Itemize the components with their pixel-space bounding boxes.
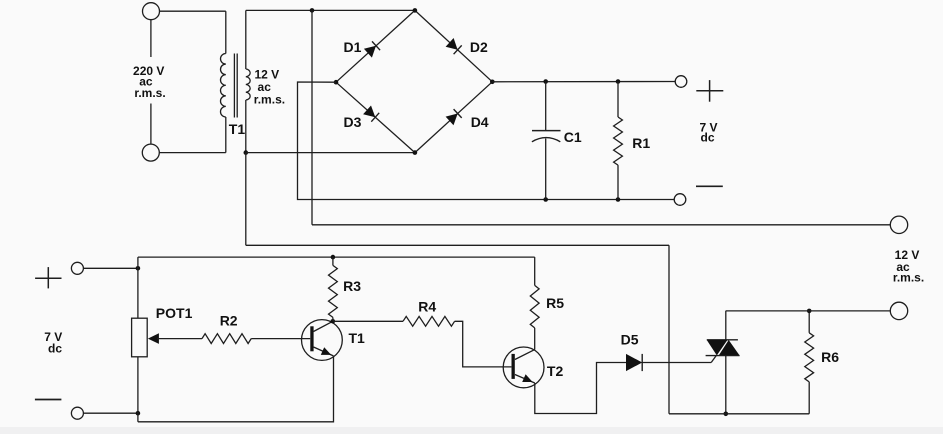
svg-text:T1: T1 [349, 330, 366, 346]
capacitor C1 curved plate [532, 138, 560, 142]
wire bridge edge D2 [415, 10, 492, 81]
svg-text:T1: T1 [229, 121, 246, 137]
svg-text:r.m.s.: r.m.s. [893, 271, 924, 285]
transistor T2 body [503, 347, 544, 388]
node bridge bottom [413, 150, 418, 155]
svg-text:D1: D1 [344, 39, 362, 55]
wire feed down [245, 153, 247, 246]
wire primary top [160, 10, 226, 12]
wire C1 top [545, 82, 547, 131]
svg-text:R1: R1 [632, 135, 650, 151]
transistor T2 collector [515, 350, 535, 360]
symbol plus output [696, 90, 723, 92]
wire primary bottom [159, 152, 226, 154]
triac TRI1 bottom bar [706, 355, 740, 357]
wire R5 bottom [534, 328, 536, 350]
capacitor C1 plate [532, 130, 561, 132]
symbol plus input [35, 277, 61, 279]
svg-text:dc: dc [700, 131, 714, 145]
node R1 bottom [616, 197, 621, 202]
transistor T1 body [302, 320, 343, 361]
wire bridge edge D3 [336, 82, 415, 152]
node R6 top [807, 309, 812, 314]
wire plus rail [492, 81, 675, 83]
wire bridge edge D1 [336, 10, 415, 82]
node R1 top [616, 79, 621, 84]
wire R1 bottom [617, 165, 619, 199]
wire minus leg [298, 82, 675, 200]
node triac bottom [724, 412, 729, 417]
wire R4 left [333, 320, 403, 322]
wire primary left upper [225, 11, 227, 53]
terminal 12V ac lower [890, 302, 907, 319]
terminal 220V top [143, 3, 160, 20]
transistor T1 emitter [314, 347, 334, 356]
wire R6 top [808, 311, 810, 333]
diode D3 [363, 106, 375, 118]
resistor R3 [329, 265, 338, 317]
wire triac MT1 [725, 356, 727, 414]
wire C1 bottom [545, 139, 547, 200]
wire feed across [246, 244, 669, 246]
wire triac MT2 [725, 311, 727, 340]
node bridge right [490, 80, 495, 85]
wire triac top rail [726, 310, 891, 312]
terminal 12V ac upper [890, 216, 907, 233]
transistor T1 collector [314, 321, 333, 331]
svg-text:D5: D5 [621, 332, 639, 348]
wire R3 top [332, 257, 334, 265]
node C1 top [543, 79, 548, 84]
symbol minus input [35, 399, 62, 401]
wire POT1 bottom [137, 357, 139, 422]
transformer T1 secondary coil [246, 69, 250, 100]
terminal 220V bottom [142, 144, 159, 161]
svg-text:R3: R3 [343, 278, 361, 294]
wire secondary bottom vert [245, 100, 247, 153]
wire minus input [83, 412, 137, 414]
node plus input [136, 266, 141, 271]
svg-text:C1: C1 [564, 129, 582, 145]
svg-text:R2: R2 [220, 313, 238, 329]
resistor R4 [403, 316, 455, 326]
terminal plus input [71, 262, 83, 274]
wire bridge edge D4 [415, 82, 492, 153]
wire secondary top vert [245, 10, 247, 69]
wire secondary bottom horiz [246, 152, 415, 154]
node bridge left [334, 80, 339, 85]
terminal plus 7V [675, 76, 687, 88]
node minus input [136, 411, 141, 416]
potentiometer POT1 body [132, 318, 148, 357]
wire R2 [157, 338, 202, 340]
terminal minus 7V [674, 194, 686, 206]
potentiometer POT1 wiper [148, 333, 159, 344]
wire D5 to gate [642, 362, 711, 364]
node secondary bottom [244, 150, 249, 155]
node R3 top [331, 255, 336, 260]
wire R4 right [455, 321, 512, 367]
node T1 collector [331, 319, 336, 324]
wire left vert upper [137, 257, 139, 318]
svg-text:D4: D4 [471, 114, 489, 130]
triac TRI1 top bar [707, 339, 738, 341]
node bridge top [413, 8, 418, 13]
transistor T2 base bar [512, 354, 515, 379]
wire R6 bottom [808, 382, 810, 414]
svg-text:D3: D3 [344, 114, 362, 130]
wire R5 feed [534, 257, 536, 285]
svg-text:r.m.s.: r.m.s. [134, 86, 165, 100]
svg-text:dc: dc [48, 341, 62, 355]
wire triac gate [711, 356, 716, 363]
transformer T1 primary coil [221, 54, 226, 117]
node C1 bottom [543, 197, 548, 202]
svg-text:R4: R4 [418, 298, 436, 314]
svg-text:R5: R5 [546, 295, 564, 311]
diode D4 [446, 114, 458, 126]
wire secondary top horiz [246, 9, 415, 11]
wire feed down right [668, 245, 670, 413]
terminal minus input [71, 407, 83, 419]
wire 12V ac line [312, 224, 890, 226]
triac TRI1 triangles [707, 340, 728, 356]
wire T2 emitter down [535, 363, 626, 414]
transformer T1 core [233, 54, 235, 118]
diode D5 [626, 354, 642, 371]
resistor R6 [805, 333, 814, 382]
wire bottom rail right [669, 413, 809, 415]
wire primary left lower [225, 117, 227, 153]
svg-text:R6: R6 [821, 349, 839, 365]
resistor R2 [202, 334, 251, 344]
wire top rail [138, 256, 535, 258]
wire 12V tap down [311, 10, 313, 224]
transistor T2 emitter [515, 375, 535, 384]
diode D2 [446, 38, 458, 50]
wire R3 bottom [332, 317, 334, 321]
svg-text:D2: D2 [470, 39, 488, 55]
svg-text:POT1: POT1 [156, 305, 193, 321]
transistor T1 base bar [310, 326, 313, 351]
node 12V tap [310, 8, 315, 13]
wire R1 top [617, 82, 619, 118]
wire 220V source line [150, 20, 152, 57]
wire bottom rail left [138, 356, 334, 422]
wire plus input [83, 267, 137, 269]
svg-text:r.m.s.: r.m.s. [254, 92, 285, 106]
diode D1 [364, 46, 376, 58]
symbol minus output [696, 185, 723, 187]
resistor R5 [530, 285, 539, 328]
resistor R1 [614, 117, 623, 165]
svg-text:T2: T2 [547, 363, 564, 379]
